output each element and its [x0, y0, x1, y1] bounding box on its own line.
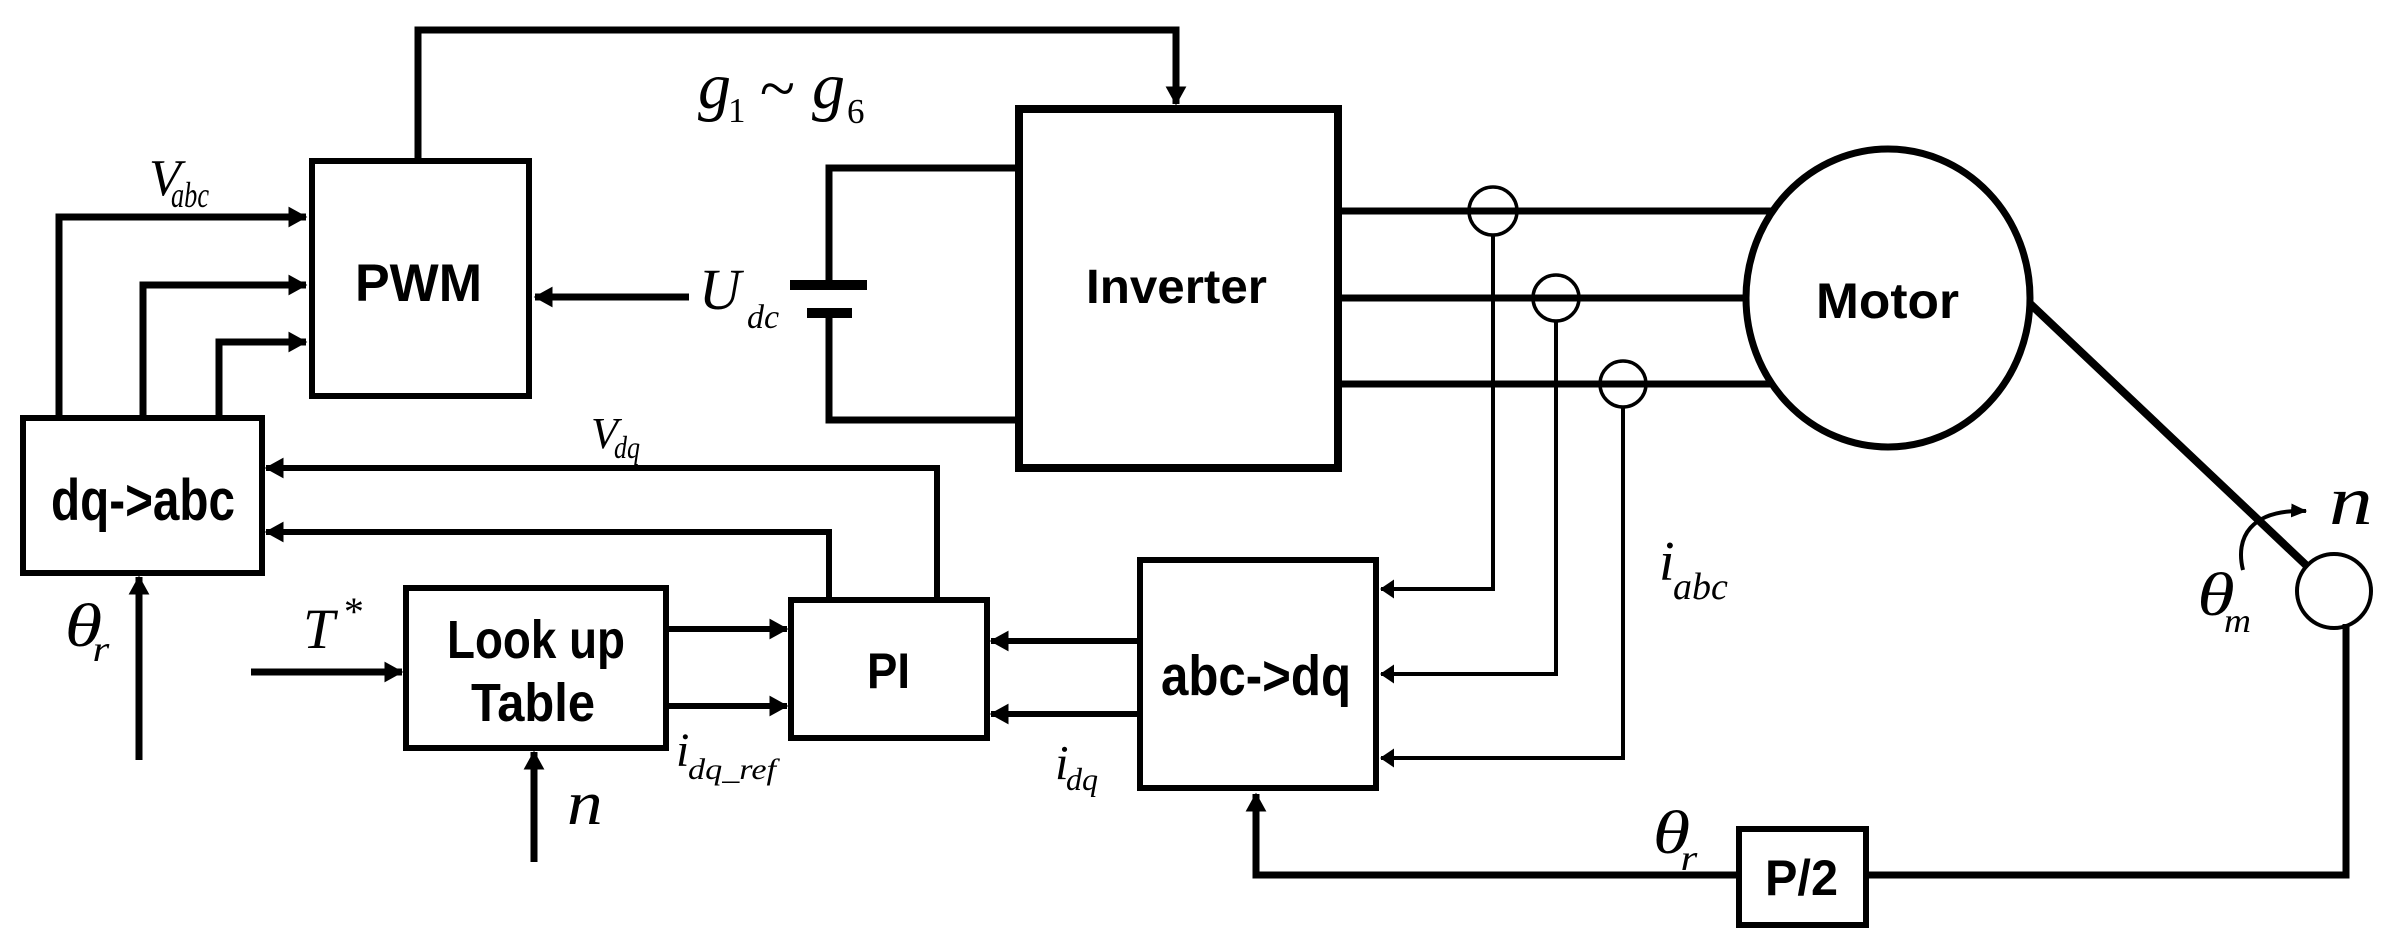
battery U_dc top wire — [829, 168, 1017, 285]
label theta_m — [2197, 560, 2251, 639]
svg-text:dq_ref: dq_ref — [688, 753, 780, 786]
block Inverter — [1019, 109, 1338, 468]
wire current sensor 3 drop to abc->dq in3 — [1381, 406, 1623, 758]
battery plate long — [790, 280, 867, 290]
label theta_r (right) — [1653, 798, 1698, 878]
wire Inverter phase B to Motor — [1338, 295, 1800, 302]
block Look up Table — [406, 588, 666, 748]
wire T* into Look up Table — [251, 669, 402, 676]
wire PI out1 (Vdq) to dq->abc — [266, 468, 937, 600]
motor M — [1746, 149, 2030, 447]
svg-text:dq: dq — [614, 429, 640, 465]
wire U_dc to PWM right input — [535, 294, 689, 301]
label V_abc — [149, 150, 209, 215]
svg-text:PI: PI — [867, 643, 910, 699]
svg-text:dq: dq — [1066, 761, 1098, 797]
wire PI out2 to dq->abc — [266, 532, 829, 600]
battery U_dc bottom wire — [829, 313, 1017, 420]
svg-text:dq->abc: dq->abc — [51, 468, 235, 533]
svg-text:r: r — [1681, 838, 1698, 878]
svg-text:Look up: Look up — [447, 610, 625, 670]
wire Look up Table out2 to PI — [666, 703, 787, 709]
svg-text:Motor: Motor — [1816, 273, 1959, 329]
svg-text:n: n — [567, 769, 603, 838]
block PWM — [312, 161, 529, 396]
label U_dc — [699, 257, 779, 336]
label theta_r (left) — [65, 591, 110, 669]
svg-text:P/2: P/2 — [1765, 850, 1838, 906]
encoder — [2297, 554, 2371, 628]
wire PWM top to Inverter top (gate signal bus g1-g6) — [418, 30, 1176, 161]
label i_dq — [1055, 735, 1098, 797]
label i_dq_ref — [676, 724, 780, 786]
svg-text:U: U — [699, 257, 745, 322]
current sensor 2 — [1533, 275, 1579, 321]
wire dq->abc out2 to PWM in2 — [143, 285, 306, 418]
svg-text:*: * — [342, 589, 362, 634]
block P/2 — [1739, 829, 1866, 925]
label V_dq — [591, 409, 640, 465]
svg-text:1: 1 — [728, 91, 746, 130]
wire dq->abc out1 to PWM in1 — [59, 217, 306, 418]
svg-text:n: n — [2329, 462, 2373, 540]
svg-text:m: m — [2224, 602, 2251, 640]
wire P/2 to abc->dq bottom — [1256, 794, 1739, 875]
svg-text:g: g — [812, 50, 845, 123]
block dq->abc — [23, 418, 262, 573]
label T* — [303, 589, 362, 661]
wire abc->dq out2 to PI — [991, 711, 1140, 717]
wire theta_r into dq->abc bottom — [136, 577, 143, 760]
svg-text:abc->dq: abc->dq — [1161, 644, 1351, 708]
wire abc->dq out1 to PI — [991, 638, 1140, 644]
wire dq->abc out3 to PWM in3 — [219, 342, 306, 418]
battery plate short — [807, 308, 852, 318]
block abc->dq — [1140, 560, 1376, 788]
rotation arrow n — [2241, 511, 2306, 570]
label i_abc — [1659, 531, 1728, 608]
svg-text:Inverter: Inverter — [1086, 261, 1267, 314]
svg-text:abc: abc — [1673, 566, 1728, 608]
wire Look up Table out1 to PI — [666, 626, 787, 632]
wire encoder to P/2 — [1869, 624, 2346, 875]
svg-text:~: ~ — [759, 53, 794, 125]
wire current sensor 1 drop to abc->dq in1 — [1381, 234, 1493, 589]
current sensor 3 — [1600, 361, 1646, 407]
svg-text:abc: abc — [171, 175, 209, 215]
label g1 ~ g6 — [698, 50, 865, 131]
wire Inverter phase A to Motor — [1338, 208, 1800, 215]
block PI — [791, 600, 987, 738]
svg-text:dc: dc — [747, 299, 779, 336]
svg-text:Table: Table — [471, 673, 595, 733]
svg-text:r: r — [93, 629, 110, 669]
current sensor 1 — [1469, 187, 1517, 235]
svg-text:6: 6 — [847, 92, 865, 131]
wire Inverter phase C to Motor — [1338, 381, 1800, 388]
svg-text:PWM: PWM — [355, 254, 482, 313]
wire n into Look up Table bottom — [531, 752, 538, 862]
svg-text:T: T — [303, 598, 339, 661]
wire current sensor 2 drop to abc->dq in2 — [1381, 320, 1556, 674]
motor shaft — [2005, 280, 2307, 566]
svg-text:g: g — [698, 50, 731, 123]
